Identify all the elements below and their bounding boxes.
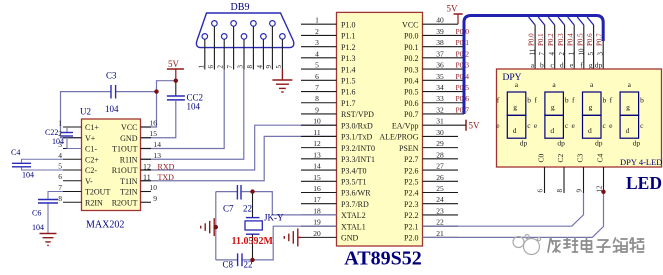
- net labels P0.0-P0.7 on display wires (rotated): [528, 33, 604, 46]
- bus P0 (thick): [464, 16, 603, 115]
- ground (DB9 pin 5): [272, 70, 292, 93]
- svg-text:1: 1: [568, 52, 576, 56]
- svg-text:11: 11: [313, 128, 320, 137]
- net labels P0.0-P0.7: [456, 27, 470, 115]
- svg-text:8: 8: [315, 94, 319, 103]
- svg-text:d: d: [588, 126, 592, 135]
- svg-text:P3.0/RxD: P3.0/RxD: [341, 121, 373, 130]
- svg-text:104: 104: [32, 223, 44, 232]
- svg-text:P2.5: P2.5: [404, 178, 418, 187]
- svg-text:g: g: [589, 103, 593, 112]
- capacitor C7: [216, 185, 253, 214]
- svg-text:C22: C22: [45, 128, 58, 137]
- svg-text:b: b: [527, 95, 531, 104]
- power 5V (MCU pin 31 EA): [466, 120, 480, 131]
- svg-text:C4: C4: [11, 148, 20, 157]
- svg-text:P0.7: P0.7: [456, 106, 470, 115]
- svg-text:36: 36: [436, 61, 444, 70]
- svg-text:9: 9: [576, 189, 584, 193]
- svg-text:1: 1: [315, 16, 319, 25]
- svg-text:U2: U2: [80, 107, 91, 117]
- connector DB9: [196, 2, 293, 47]
- svg-text:P0.0: P0.0: [404, 32, 418, 41]
- svg-text:30: 30: [436, 128, 444, 137]
- svg-text:3: 3: [597, 52, 605, 56]
- svg-text:32: 32: [436, 106, 444, 115]
- capacitor C6: [32, 192, 63, 234]
- svg-text:P0.0: P0.0: [456, 27, 470, 36]
- 7-seg digit 1: [496, 80, 531, 148]
- svg-text:P3.3/INT1: P3.3/INT1: [341, 155, 375, 164]
- svg-text:RST/VPD: RST/VPD: [341, 110, 374, 119]
- svg-text:40: 40: [436, 16, 444, 25]
- svg-text:P0.5: P0.5: [456, 83, 470, 92]
- svg-text:g: g: [589, 61, 593, 70]
- DB9 pin numbers (rotated): [197, 65, 283, 69]
- svg-text:5V: 5V: [469, 121, 481, 131]
- svg-text:26: 26: [436, 173, 444, 182]
- svg-text:RXD: RXD: [158, 162, 175, 171]
- svg-text:e: e: [570, 61, 574, 70]
- MCU pin stubs right: [423, 24, 467, 237]
- ground (MCU pin 20 GND): [284, 228, 301, 246]
- svg-text:5V: 5V: [168, 59, 180, 69]
- capacitor C3: [61, 70, 157, 137]
- svg-text:ALE/PROG: ALE/PROG: [379, 133, 418, 142]
- svg-text:104: 104: [22, 171, 34, 180]
- svg-text:19: 19: [313, 218, 321, 227]
- svg-text:P0.5: P0.5: [404, 88, 418, 97]
- wire DB9 pin2 to U2 pin14: [141, 70, 225, 149]
- svg-text:10: 10: [313, 117, 321, 126]
- svg-text:5: 5: [58, 162, 62, 171]
- svg-text:C8: C8: [223, 260, 234, 270]
- svg-text:DPY 4-LED: DPY 4-LED: [620, 157, 662, 167]
- svg-text:5: 5: [275, 65, 283, 69]
- junction dot (C8/crystal bottom): [250, 258, 254, 262]
- display common pin labels C0 C2 C3 C4 (rotated): [537, 153, 605, 162]
- U2 pin stubs: [63, 127, 151, 202]
- svg-text:EA/Vpp: EA/Vpp: [392, 121, 419, 130]
- svg-text:b: b: [640, 95, 644, 104]
- svg-text:DPY: DPY: [503, 73, 522, 83]
- svg-text:11: 11: [529, 48, 537, 55]
- svg-text:P3.6/WR: P3.6/WR: [341, 189, 371, 198]
- svg-text:7: 7: [538, 52, 546, 56]
- svg-text:AT89S52: AT89S52: [344, 248, 421, 270]
- svg-text:C3: C3: [106, 70, 117, 80]
- svg-text:LED: LED: [626, 173, 662, 193]
- watermark logo: [513, 235, 541, 255]
- svg-text:P0.3: P0.3: [557, 33, 565, 46]
- svg-text:4: 4: [548, 52, 556, 56]
- svg-text:13: 13: [313, 150, 321, 159]
- svg-text:7: 7: [58, 183, 62, 192]
- svg-text:1: 1: [197, 65, 205, 69]
- wire 5V branch to C3/VCC: [141, 81, 176, 127]
- svg-text:P3.2/INT0: P3.2/INT0: [341, 144, 375, 153]
- junction dot (C3/VCC): [154, 89, 158, 93]
- wire XTAL1: junction to MCU pin19: [253, 226, 337, 260]
- svg-text:V-: V-: [85, 177, 93, 186]
- svg-text:P0.6: P0.6: [586, 33, 594, 46]
- svg-text:g: g: [551, 103, 555, 112]
- svg-text:b: b: [540, 61, 544, 70]
- svg-text:XTAL2: XTAL2: [341, 211, 366, 220]
- svg-text:104: 104: [105, 104, 119, 114]
- power 5V (MCU pin 40): [447, 4, 463, 25]
- svg-text:P0.0: P0.0: [528, 33, 536, 46]
- svg-text:C4: C4: [596, 153, 605, 162]
- svg-text:a: a: [531, 61, 535, 70]
- svg-text:PSEN: PSEN: [399, 144, 419, 153]
- svg-text:P1.1: P1.1: [341, 32, 355, 41]
- power 5V (top left): [167, 59, 184, 81]
- svg-text:P2.2: P2.2: [404, 211, 418, 220]
- svg-text:3: 3: [315, 38, 319, 47]
- crystal Y1 JK-Y: [232, 192, 284, 260]
- wire display common stubs: [545, 167, 604, 193]
- wire MCU pin21 to display pin 12: [423, 192, 604, 237]
- 7-seg digit 4: [609, 80, 644, 148]
- svg-text:P0.4: P0.4: [456, 72, 470, 81]
- svg-text:GND: GND: [120, 134, 138, 143]
- svg-text:23: 23: [436, 206, 444, 215]
- svg-text:GND: GND: [341, 234, 359, 243]
- svg-text:P2.1: P2.1: [404, 222, 418, 231]
- svg-text:T1IN: T1IN: [120, 177, 138, 186]
- svg-text:P1.5: P1.5: [341, 77, 355, 86]
- svg-text:MAX202: MAX202: [86, 220, 124, 231]
- svg-text:T1OUT: T1OUT: [112, 145, 137, 154]
- wire crystal loop left / ground rail: [215, 192, 217, 260]
- svg-text:R2OUT: R2OUT: [112, 198, 138, 207]
- svg-text:P1.3: P1.3: [341, 54, 355, 63]
- svg-text:P1.0: P1.0: [341, 20, 355, 29]
- U2 pin names: [85, 123, 138, 207]
- MCU pin names: [341, 20, 419, 242]
- junction dot (crystal gnd): [214, 225, 218, 229]
- svg-text:P0.1: P0.1: [404, 43, 418, 52]
- svg-text:C1+: C1+: [85, 123, 99, 132]
- capacitor C22: [45, 127, 82, 149]
- svg-text:14: 14: [313, 162, 321, 171]
- svg-text:P3.7/RD: P3.7/RD: [341, 200, 369, 209]
- svg-text:104: 104: [52, 137, 64, 146]
- svg-text:P0.2: P0.2: [547, 33, 555, 46]
- display top segment letters: [531, 61, 603, 70]
- svg-text:P0.3: P0.3: [456, 61, 470, 70]
- svg-text:C6: C6: [32, 209, 41, 218]
- svg-text:P2.3: P2.3: [404, 200, 418, 209]
- svg-text:T2IN: T2IN: [120, 188, 138, 197]
- svg-text:27: 27: [436, 162, 444, 171]
- svg-text:13: 13: [154, 151, 162, 160]
- bus entries (diagonals): [529, 17, 594, 25]
- svg-text:P0.1: P0.1: [537, 33, 545, 46]
- op-amp U2 MAX202 chip body: [80, 107, 141, 231]
- svg-text:3: 3: [237, 65, 245, 69]
- capacitor C8: [216, 253, 253, 269]
- svg-text:9: 9: [153, 194, 157, 203]
- svg-text:d: d: [513, 126, 517, 135]
- svg-text:15: 15: [150, 129, 158, 138]
- svg-text:P0.1: P0.1: [456, 38, 470, 47]
- svg-text:P3.1/TxD: P3.1/TxD: [341, 133, 373, 142]
- svg-text:15: 15: [313, 173, 321, 182]
- svg-text:22: 22: [243, 204, 252, 214]
- svg-text:P2.0: P2.0: [404, 234, 418, 243]
- svg-text:V+: V+: [85, 134, 96, 143]
- svg-text:P0.4: P0.4: [567, 33, 575, 46]
- MCU pin numbers: [313, 16, 444, 238]
- svg-text:dp: dp: [595, 139, 603, 148]
- wire MCU pin22 to display pin 9: [423, 193, 584, 226]
- svg-text:P1.2: P1.2: [341, 43, 355, 52]
- svg-text:2: 2: [558, 52, 566, 56]
- svg-text:C2: C2: [556, 153, 565, 162]
- svg-text:4: 4: [256, 65, 264, 69]
- watermark text 伊斯电子编程 (drawn strokes): [548, 238, 644, 252]
- net label RXD: [143, 162, 175, 171]
- svg-text:5V: 5V: [447, 4, 459, 14]
- svg-text:P0.5: P0.5: [576, 33, 584, 46]
- svg-text:25: 25: [436, 184, 444, 193]
- junction dot (5V/CC2): [174, 79, 178, 83]
- wire XTAL2: junction to MCU pin18: [253, 192, 337, 215]
- svg-text:dp: dp: [595, 61, 603, 70]
- svg-text:P0.4: P0.4: [404, 77, 418, 86]
- display DPY 4-LED body: [497, 69, 663, 167]
- svg-text:6: 6: [58, 172, 62, 181]
- svg-text:9: 9: [315, 106, 319, 115]
- svg-text:7: 7: [315, 83, 319, 92]
- svg-text:4: 4: [58, 151, 62, 160]
- svg-text:9: 9: [265, 65, 273, 69]
- capacitor C4: [11, 148, 63, 180]
- svg-text:P1.7: P1.7: [341, 99, 355, 108]
- svg-text:8: 8: [556, 189, 564, 193]
- ground (C6): [40, 234, 57, 246]
- svg-text:T2OUT: T2OUT: [85, 188, 110, 197]
- wire segment display pins a-dp: [535, 25, 603, 70]
- wire TXD: U2 pin11 to MCU pin11: [141, 136, 337, 180]
- svg-text:29: 29: [436, 139, 444, 148]
- svg-text:38: 38: [436, 38, 444, 47]
- svg-text:C2-: C2-: [85, 166, 97, 175]
- wire RXD: U2 pin12 to MCU pin10: [141, 125, 337, 170]
- svg-text:10: 10: [150, 183, 158, 192]
- svg-text:5: 5: [587, 52, 595, 56]
- svg-text:R2IN: R2IN: [85, 198, 103, 207]
- svg-text:11.0592M: 11.0592M: [232, 236, 274, 247]
- svg-text:12: 12: [313, 139, 321, 148]
- svg-text:1: 1: [58, 119, 62, 128]
- junction dot (C7/crystal top): [250, 189, 254, 193]
- svg-text:P2.7: P2.7: [404, 155, 418, 164]
- svg-text:DB9: DB9: [231, 2, 250, 13]
- MCU pin stubs left: [301, 24, 337, 237]
- svg-text:39: 39: [436, 27, 444, 36]
- svg-text:C2+: C2+: [85, 155, 99, 164]
- svg-text:P3.4/T0: P3.4/T0: [341, 166, 367, 175]
- svg-text:104: 104: [187, 102, 201, 112]
- svg-text:P0.2: P0.2: [456, 49, 470, 58]
- svg-text:P2.6: P2.6: [404, 166, 418, 175]
- wire DB9 pin3 to U2 pin13: [141, 70, 244, 160]
- svg-text:17: 17: [313, 195, 321, 204]
- svg-text:g: g: [626, 103, 630, 112]
- svg-text:TXD: TXD: [158, 173, 175, 182]
- svg-text:20: 20: [313, 229, 321, 238]
- svg-text:24: 24: [436, 195, 444, 204]
- 7-seg digit 3: [572, 80, 607, 148]
- svg-text:d: d: [550, 126, 554, 135]
- svg-text:C7: C7: [223, 204, 234, 214]
- 7-seg digit 2: [534, 80, 569, 148]
- svg-text:P0.7: P0.7: [404, 110, 418, 119]
- svg-text:8: 8: [246, 65, 254, 69]
- svg-text:P0.3: P0.3: [404, 65, 418, 74]
- svg-text:C0: C0: [537, 153, 546, 162]
- svg-text:dp: dp: [520, 139, 528, 148]
- svg-text:8: 8: [58, 194, 62, 203]
- svg-text:6: 6: [315, 72, 319, 81]
- svg-text:R1OUT: R1OUT: [112, 166, 138, 175]
- svg-text:6: 6: [537, 189, 545, 193]
- svg-text:JK-Y: JK-Y: [264, 213, 284, 223]
- svg-text:7: 7: [226, 65, 234, 69]
- svg-text:g: g: [513, 103, 517, 112]
- svg-text:33: 33: [436, 94, 444, 103]
- svg-text:P0.2: P0.2: [404, 54, 418, 63]
- svg-text:10: 10: [577, 48, 585, 56]
- svg-text:b: b: [565, 95, 569, 104]
- svg-text:28: 28: [436, 150, 444, 159]
- svg-text:4: 4: [315, 49, 319, 58]
- svg-text:XTAL1: XTAL1: [341, 222, 366, 231]
- net label TXD: [143, 173, 174, 182]
- display bottom pin numbers (rotated): [537, 185, 604, 193]
- svg-text:16: 16: [313, 184, 321, 193]
- capacitor CC2: [141, 81, 204, 138]
- svg-text:22: 22: [436, 218, 444, 227]
- svg-text:c: c: [550, 61, 554, 70]
- svg-text:37: 37: [436, 49, 444, 58]
- svg-text:2: 2: [217, 65, 225, 69]
- svg-text:C1-: C1-: [85, 145, 97, 154]
- junction dot (display pin12): [601, 190, 605, 194]
- svg-text:5: 5: [315, 61, 319, 70]
- svg-text:14: 14: [154, 140, 162, 149]
- ground (crystal): [201, 218, 216, 236]
- U2 pin numbers: [58, 119, 161, 203]
- svg-text:6: 6: [207, 65, 215, 69]
- svg-text:P3.5/T1: P3.5/T1: [341, 178, 367, 187]
- svg-text:P0.7: P0.7: [596, 33, 604, 46]
- svg-text:f: f: [580, 61, 583, 70]
- wire DB9 pin stubs: [205, 26, 283, 69]
- svg-text:P2.4: P2.4: [404, 189, 418, 198]
- svg-text:P1.6: P1.6: [341, 88, 355, 97]
- svg-text:d: d: [626, 126, 630, 135]
- svg-text:18: 18: [313, 206, 321, 215]
- svg-text:34: 34: [436, 83, 444, 92]
- svg-text:21: 21: [436, 229, 444, 238]
- svg-text:dp: dp: [557, 139, 565, 148]
- svg-text:P0.6: P0.6: [404, 99, 418, 108]
- svg-text:dp: dp: [633, 139, 641, 148]
- svg-text:R1IN: R1IN: [120, 155, 138, 164]
- display top pin numbers (rotated): [529, 48, 605, 56]
- svg-text:b: b: [603, 95, 607, 104]
- svg-text:VCC: VCC: [402, 20, 418, 29]
- svg-text:2: 2: [315, 27, 319, 36]
- MCU U1 AT89S52 chip body: [337, 12, 423, 269]
- svg-text:d: d: [560, 61, 564, 70]
- svg-text:VCC: VCC: [121, 123, 137, 132]
- svg-text:P0.6: P0.6: [456, 94, 470, 103]
- svg-text:C3: C3: [576, 153, 585, 162]
- svg-text:35: 35: [436, 72, 444, 81]
- svg-text:31: 31: [436, 117, 444, 126]
- svg-text:P1.4: P1.4: [341, 65, 355, 74]
- svg-text:16: 16: [150, 119, 158, 128]
